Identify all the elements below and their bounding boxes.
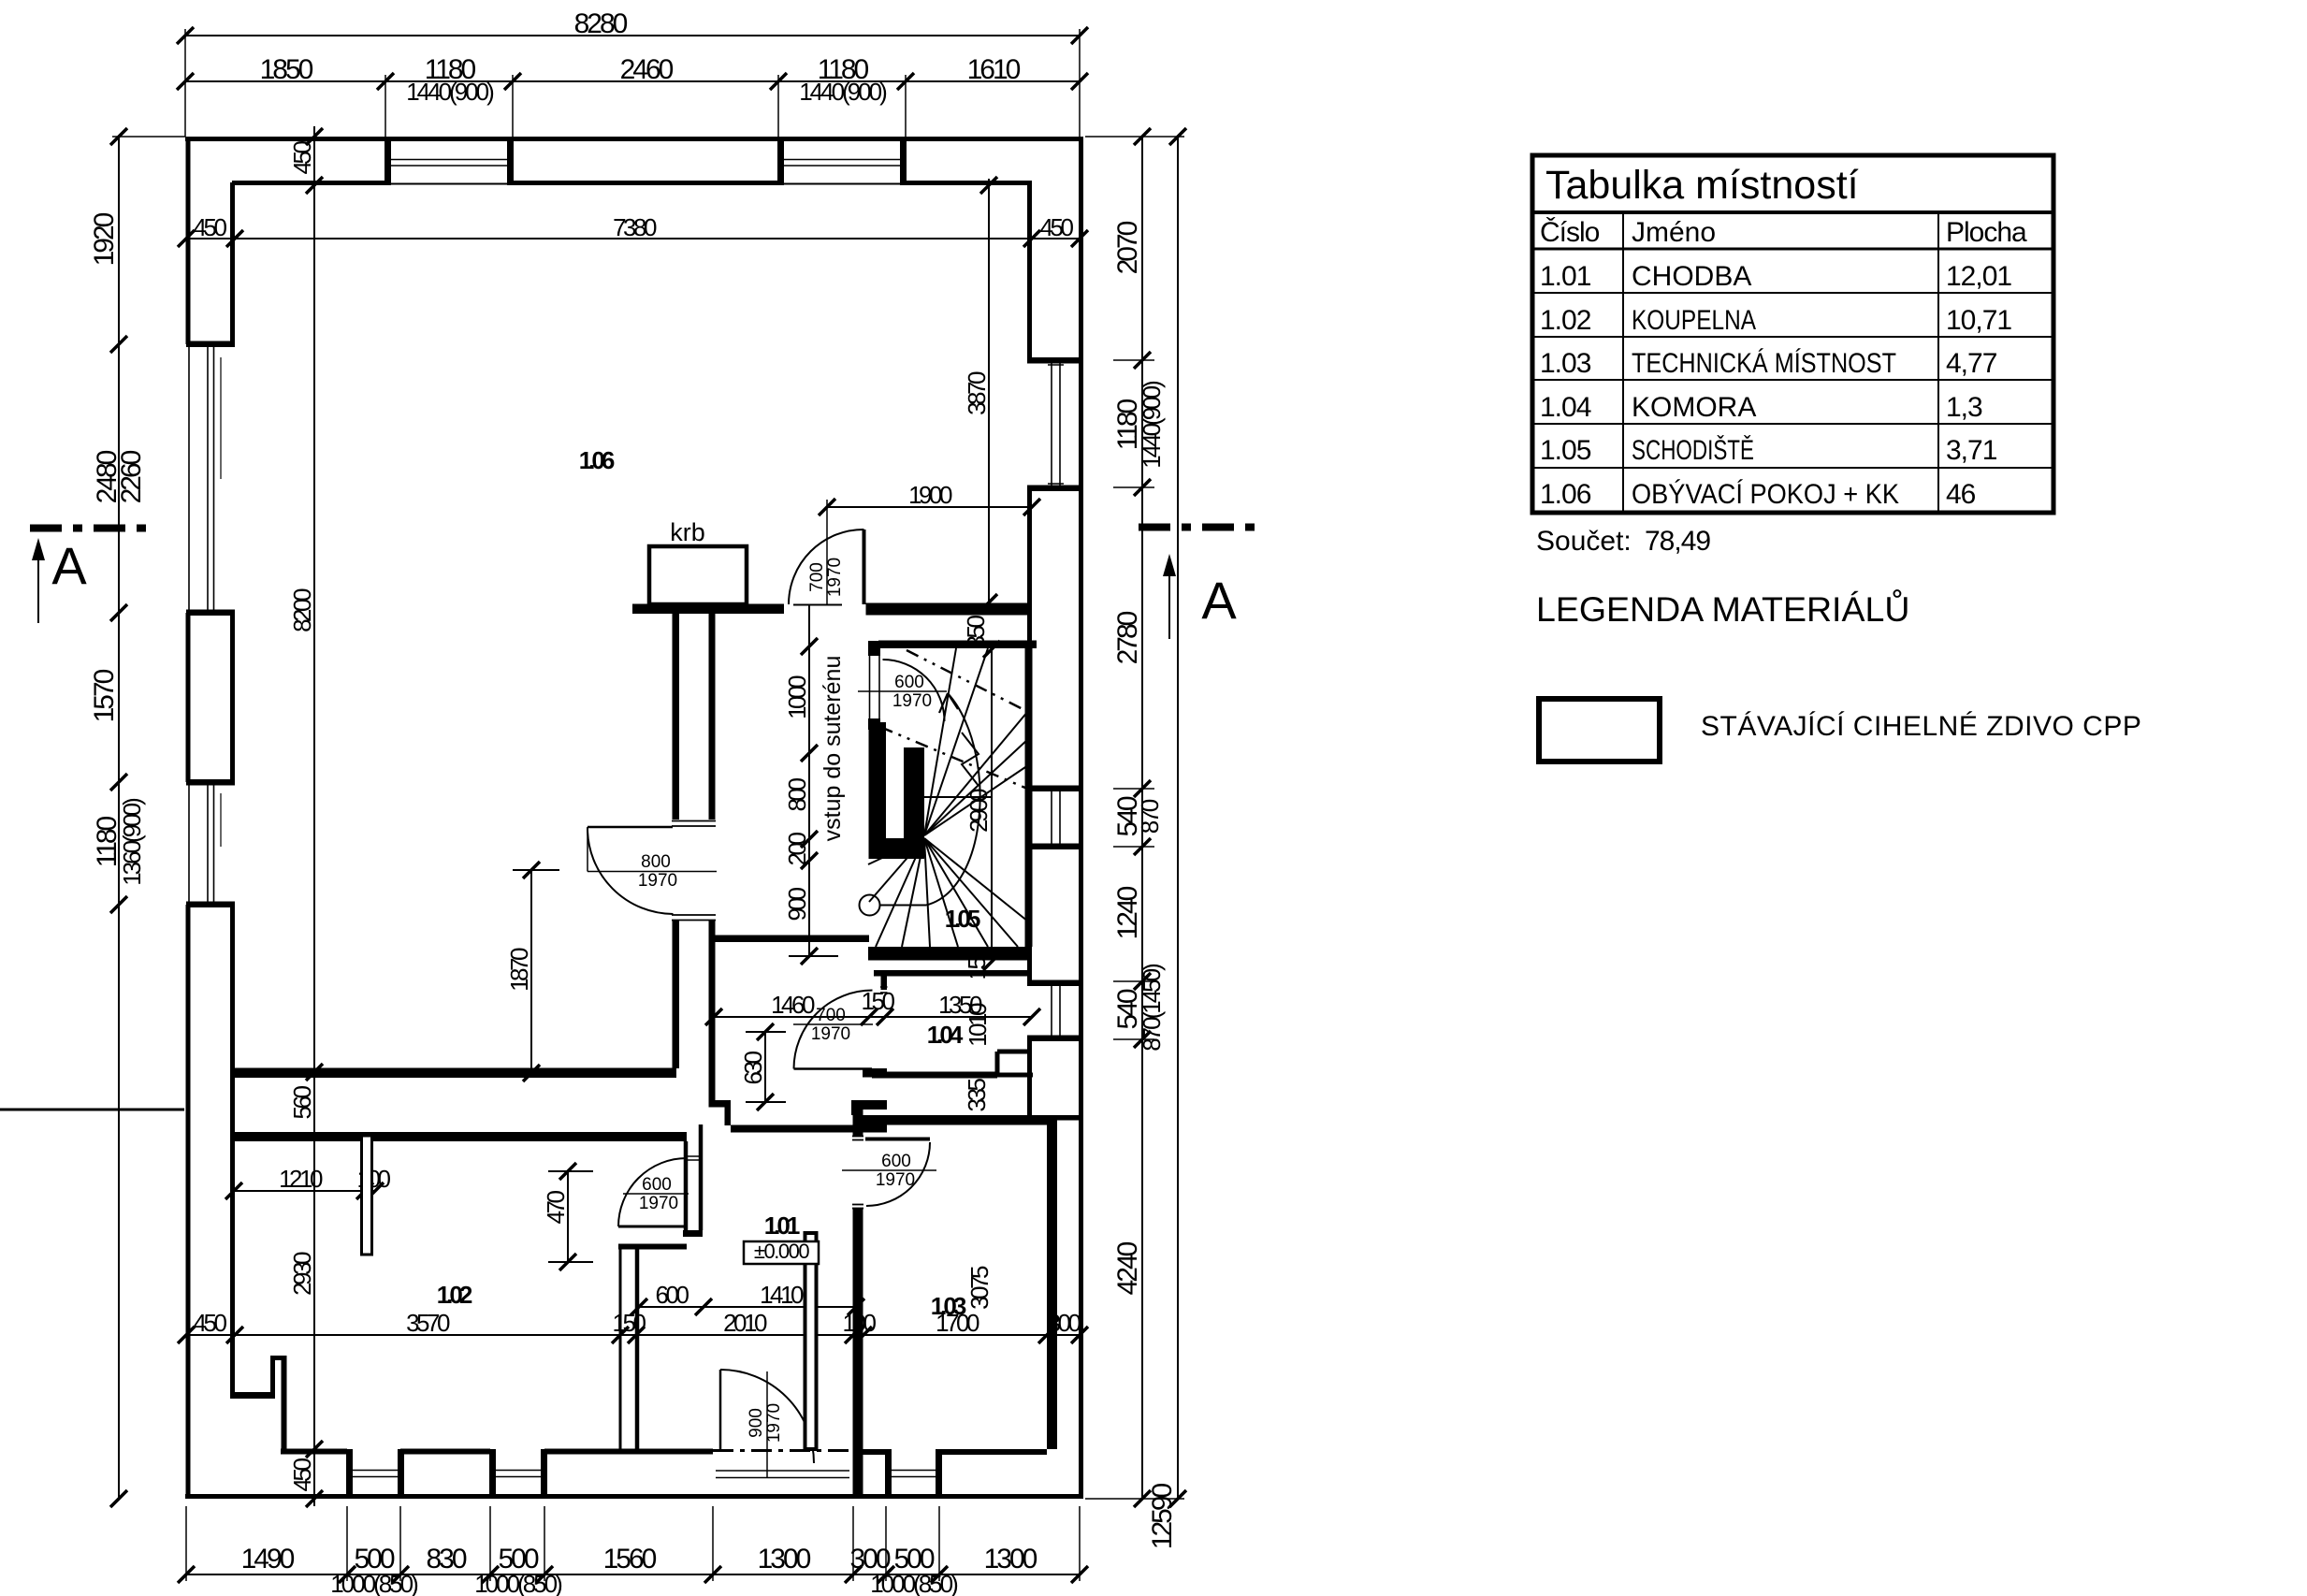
svg-text:1850: 1850 [260,54,313,85]
room 1.03 north wall [857,1115,1047,1125]
north wall of bathroom 1.02 [234,1132,687,1141]
svg-text:630: 630 [739,1052,767,1085]
svg-text:470: 470 [542,1191,570,1225]
room 1.03 door leaf [865,1138,930,1141]
door 700 size label 700/1970 [826,500,828,605]
svg-text:700: 700 [816,1006,846,1025]
right wall inner face [1027,182,1032,360]
svg-text:200: 200 [783,833,811,866]
corridor west step walls [709,1100,732,1108]
room 1.03 door swing arc [866,1142,930,1206]
svg-text:1920: 1920 [89,212,120,266]
svg-text:1440(900): 1440(900) [1138,381,1166,469]
left dimension chain (1920/2480/1570/1180) [118,137,120,1499]
stair walking line start circle [860,895,880,916]
svg-text:450: 450 [288,141,316,175]
svg-text:1000: 1000 [783,675,811,719]
svg-text:1570: 1570 [89,669,120,722]
svg-text:1000(850): 1000(850) [474,1570,562,1596]
svg-text:1460: 1460 [771,991,815,1019]
svg-text:4,77: 4,77 [1946,348,1997,379]
dim 1900 at y=542 [827,506,1032,508]
stairwell north wall [878,641,1037,649]
svg-text:STÁVAJÍCÍ CIHELNÉ ZDIVO CPP: STÁVAJÍCÍ CIHELNÉ ZDIVO CPP [1701,711,2141,742]
svg-text:1.04: 1.04 [927,1021,964,1049]
svg-text:1970: 1970 [764,1403,784,1443]
svg-text:OBÝVACÍ POKOJ + KK: OBÝVACÍ POKOJ + KK [1632,479,1899,510]
svg-text:1,3: 1,3 [1946,392,1982,423]
terrain line left [0,1109,184,1111]
svg-text:1.03: 1.03 [931,1292,966,1320]
bottom wall inner face [281,1449,347,1455]
svg-text:1000(850): 1000(850) [330,1570,418,1596]
svg-text:1000(850): 1000(850) [870,1570,958,1596]
svg-text:2930: 2930 [288,1252,316,1296]
svg-text:450: 450 [194,213,227,241]
wall B east parallel [709,609,716,820]
top dimension chain line 1 (8280 overall) [185,35,1080,36]
svg-text:600: 600 [642,1175,672,1195]
svg-text:1560: 1560 [603,1544,657,1574]
svg-text:1970: 1970 [876,1170,915,1190]
wall between 1.06 and lower rooms (south wall of living room) [234,1068,676,1079]
svg-text:870: 870 [1136,799,1164,834]
level box ±0.000 [744,1241,819,1264]
interior vertical dim 3870 at x=1057 [988,179,990,602]
stairwell west wall top stub + door jambs [868,641,880,656]
left wall outer face [186,137,191,344]
svg-text:vstup do suterénu: vstup do suterénu [820,656,846,842]
entrance door swing arc [720,1370,814,1463]
right wall window jambs [1027,357,1083,364]
svg-text:CHODBA: CHODBA [1632,261,1751,292]
door 800 swing arc [588,828,674,915]
svg-text:SCHODIŠTĚ: SCHODIŠTĚ [1632,434,1754,466]
svg-text:KOMORA: KOMORA [1632,392,1756,423]
svg-text:Číslo: Číslo [1540,216,1600,248]
entrance door leaf [719,1370,722,1449]
wall below komora [851,1100,887,1110]
top wall outer face [185,137,1080,141]
svg-text:1.03: 1.03 [1540,348,1591,379]
svg-text:A: A [1201,571,1237,630]
entrance door size label 900/1970 [766,1371,768,1478]
svg-text:12590: 12590 [1147,1483,1178,1549]
section line A-A right [1139,524,1258,531]
svg-text:Plocha: Plocha [1946,217,2027,248]
svg-text:830: 830 [426,1544,466,1574]
svg-text:3,71: 3,71 [1946,435,1997,466]
svg-text:3075: 3075 [965,1266,994,1310]
svg-text:600: 600 [656,1281,689,1309]
svg-text:8280: 8280 [574,8,628,39]
stair steps lower fan [868,838,924,864]
right wall window 3 glazing (540/870(1450)) [1051,983,1052,1038]
komora door size label 700/1970 [793,1023,873,1025]
svg-text:450: 450 [194,1309,227,1337]
svg-text:1.04: 1.04 [1540,392,1591,423]
door 700 leaf at living room [863,530,866,604]
interior dim 7380 with 450 ends (y=255) [186,238,1080,239]
dim 470 at x=607 [567,1171,569,1262]
komora south wall [872,1072,997,1079]
wall between 1.02 and 1.01 (with 600 door) [684,1141,689,1230]
dim 1210/100 at y=1273 [234,1190,375,1192]
svg-text:1240: 1240 [1112,886,1143,939]
top wall window 2 glazing [778,159,906,161]
svg-text:870(1450): 870(1450) [1138,964,1166,1052]
svg-text:4240: 4240 [1112,1241,1143,1295]
stair walking line [880,905,927,907]
svg-text:1.06: 1.06 [1540,479,1591,510]
svg-text:1.05: 1.05 [945,905,980,933]
dim chain 1000/800/200/900 at x=865 [808,604,810,956]
bottom dimension chain (1490/500/830/500/1560/1300/300/500/1300) [186,1574,1080,1575]
door 1.02 leaf [618,1226,687,1228]
section line A-A left [30,525,152,532]
niche wall in hall (x=866) [805,1233,817,1449]
svg-text:1360(900): 1360(900) [118,798,146,886]
dim 2900 rotated at stair [991,649,993,962]
corridor north wall left segment (under krb) [632,604,784,615]
svg-text:800: 800 [641,852,671,872]
svg-text:600: 600 [894,673,924,692]
corridor upper south wall (y=1000) [716,936,870,943]
bottom wall outer face [185,1494,1080,1499]
komora door 700 leaf [794,1067,873,1070]
svg-text:1.01: 1.01 [1540,261,1591,292]
right wall window 2 glazing (540/870) [1051,789,1052,847]
svg-text:46: 46 [1946,479,1976,510]
svg-text:Jméno: Jméno [1632,217,1716,248]
svg-text:2260: 2260 [116,450,147,503]
svg-text:560: 560 [288,1086,316,1120]
right wall step above room 1.03 [997,1050,1032,1054]
fireplace krb [649,546,747,604]
bottom interior chain 450/3570/150/2010/100/1700/300 at y=1427 [186,1334,1080,1336]
svg-text:Součet:: Součet: [1536,526,1632,557]
section arrow right [1168,562,1170,639]
legend material box [1539,699,1660,762]
corridor south wall (y=1203) [731,1125,887,1133]
door 800 size label 800/1970 [588,871,717,873]
svg-text:1970: 1970 [892,691,932,711]
svg-text:1.02: 1.02 [1540,305,1591,336]
svg-text:150: 150 [613,1309,646,1337]
svg-text:8200: 8200 [288,588,316,632]
stair door swing arc 600 [883,660,945,721]
svg-text:1300: 1300 [984,1544,1037,1574]
svg-text:1440(900): 1440(900) [799,78,887,106]
room 1.03 door size label 600/1970 [842,1169,936,1171]
wall 150 between 1.02 and hall [619,1244,622,1450]
dim 1460/150/1350 at y=1087 [714,1016,1032,1018]
svg-text:1900: 1900 [908,481,952,509]
dim 630 at x=818 [764,1032,766,1102]
svg-text:2070: 2070 [1112,221,1143,274]
dim 600/1410 at y=1397 [639,1306,856,1308]
stair diagonal dash-dot lines [907,650,1032,714]
svg-text:450: 450 [1040,213,1074,241]
svg-text:450: 450 [288,1458,316,1492]
section arrow left [37,546,39,623]
svg-text:900: 900 [783,888,811,921]
bottom wall window glazing x3 [347,1470,400,1472]
svg-text:2460: 2460 [620,54,674,85]
right inner dimension chain (2070/1180/2780/540/1240/540/4240) [1141,137,1143,1499]
entrance door threshold [713,1449,853,1452]
svg-text:1.02: 1.02 [437,1281,472,1309]
svg-text:800: 800 [783,778,811,812]
top wall window jambs [384,137,391,185]
svg-text:1410: 1410 [760,1281,804,1309]
wall A west of corridor (with 800 door) [673,609,680,820]
left wall window jambs [186,341,235,348]
left wall window 1 glazing [207,344,209,613]
left wall window 2 glazing [207,782,209,905]
svg-text:1.05: 1.05 [1540,435,1591,466]
right wall window 1 glazing (1180) [1051,360,1052,488]
stairwell east wall [1025,641,1033,947]
svg-text:1.06: 1.06 [579,446,615,474]
komora north wall [874,970,1032,977]
interior vertical dim 450 + 8200 at x=336 [313,126,315,1506]
komora SW hinge block [863,1068,887,1078]
svg-text:A: A [51,536,87,595]
svg-text:1970: 1970 [825,558,845,597]
svg-text:1490: 1490 [241,1544,295,1574]
svg-text:1970: 1970 [811,1024,850,1044]
stair steps upper fan [924,711,1028,835]
door 1.02 swing arc [618,1158,687,1226]
svg-text:TECHNICKÁ MÍSTNOST: TECHNICKÁ MÍSTNOST [1632,348,1896,379]
cap block below 1.02 door wall [683,1230,703,1237]
svg-text:1.01: 1.01 [764,1212,800,1240]
door 1.02 size label 600/1970 [623,1193,689,1195]
svg-text:7380: 7380 [613,213,657,241]
stair walking line break symbol [962,733,979,786]
svg-text:±0.000: ±0.000 [754,1240,809,1263]
stair step line horizontal [924,796,992,798]
svg-text:1610: 1610 [967,54,1021,85]
dim 1870 at x=568 [530,870,532,1073]
room 1.03 west wall (with 600 door) [853,1100,863,1136]
bathroom partition stub (1210/100) [362,1136,372,1255]
right outer dimension chain (12590) [1177,137,1179,1499]
stair door size label 600/1970 [858,690,947,692]
svg-text:1970: 1970 [638,871,677,891]
corridor north wall right segment [866,603,1033,616]
svg-text:3570: 3570 [406,1309,450,1337]
svg-text:KOUPELNA: KOUPELNA [1632,305,1756,336]
door jamb lines through walls A/B [672,820,716,822]
top wall inner face [232,181,385,185]
basement stair enclosure walls [869,722,887,859]
step wall west of hall [618,1244,687,1250]
table Tabulka mistnosti [1532,155,2053,513]
left wall inner face [230,182,235,344]
svg-text:1010: 1010 [964,1003,992,1047]
svg-text:Tabulka místností: Tabulka místností [1545,163,1859,208]
door 700 swing arc [789,530,864,604]
bottom wall window jambs [346,1449,353,1499]
stair walking line arrow [939,693,958,713]
svg-text:12,01: 12,01 [1946,261,2011,292]
svg-text:1440(900): 1440(900) [406,78,494,106]
door 800 leaf (wall A) [588,826,673,829]
komora door 700 swing arc [794,991,873,1069]
right wall outer face [1079,137,1083,1499]
stairwell south wall [868,947,1032,961]
svg-text:78,49: 78,49 [1645,526,1710,557]
svg-text:krb: krb [670,518,705,546]
svg-text:900: 900 [747,1408,766,1438]
svg-text:10,71: 10,71 [1946,305,2011,336]
svg-text:3870: 3870 [963,371,991,415]
svg-text:700: 700 [807,562,827,592]
svg-text:LEGENDA MATERIÁLŮ: LEGENDA MATERIÁLŮ [1536,589,1909,629]
svg-text:335: 335 [963,1079,991,1112]
svg-text:2010: 2010 [723,1309,767,1337]
svg-text:1210: 1210 [279,1165,323,1193]
top wall window 1 glazing [385,159,513,161]
svg-text:1970: 1970 [639,1194,678,1213]
top dimension chain line 2 (1850/1180/2460/1180/1610) [185,80,1080,82]
svg-text:1300: 1300 [758,1544,811,1574]
room 1.03 east wall (300) [1047,1115,1057,1449]
bathroom SW corner niche walls [230,1392,275,1399]
svg-text:2780: 2780 [1112,611,1143,664]
svg-text:1870: 1870 [505,948,533,992]
svg-text:600: 600 [881,1152,911,1171]
komora west wall upper stub [881,970,888,990]
